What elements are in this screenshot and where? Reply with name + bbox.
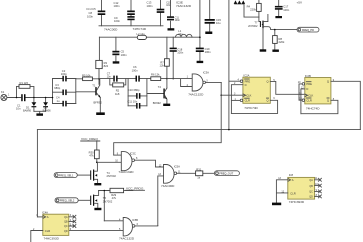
svg-text:CLR: CLR xyxy=(306,98,311,102)
svg-text:A: A xyxy=(292,178,294,182)
svg-text:10n: 10n xyxy=(107,75,112,78)
svg-text:100n: 100n xyxy=(132,68,138,72)
svg-text:T2: T2 xyxy=(158,85,162,89)
svg-text:IC3C: IC3C xyxy=(130,152,136,156)
svg-text:A: A xyxy=(47,215,49,219)
svg-text:CLR: CLR xyxy=(245,99,250,103)
svg-text:220k: 220k xyxy=(279,40,285,44)
svg-text:10n: 10n xyxy=(16,107,21,111)
svg-text:BF992: BF992 xyxy=(153,101,161,105)
svg-text:CLK: CLK xyxy=(246,93,251,97)
svg-text:IC1 IC5: IC1 IC5 xyxy=(87,7,97,11)
svg-text:BAW56: BAW56 xyxy=(43,109,52,112)
svg-text:IC2B: IC2B xyxy=(305,74,311,78)
svg-text:C11 10n: C11 10n xyxy=(127,99,137,103)
svg-text:QD: QD xyxy=(309,196,313,199)
svg-text:CLR: CLR xyxy=(45,229,50,233)
svg-text:680p: 680p xyxy=(54,86,60,90)
svg-text:74HC393D: 74HC393D xyxy=(44,237,60,241)
svg-text:100n: 100n xyxy=(121,53,127,57)
svg-text:IC5B: IC5B xyxy=(132,218,138,222)
svg-text:QC: QC xyxy=(309,191,313,194)
svg-text:CLR: CLR xyxy=(290,191,295,195)
svg-text:T5: T5 xyxy=(103,196,107,200)
svg-text:100n: 100n xyxy=(114,19,120,23)
svg-text:L2 12u: L2 12u xyxy=(137,32,146,36)
svg-text:1u: 1u xyxy=(57,99,60,103)
svg-text:QA: QA xyxy=(64,216,68,219)
svg-text:BFR92: BFR92 xyxy=(94,101,103,105)
svg-text:10u: 10u xyxy=(216,21,221,25)
svg-text:QB: QB xyxy=(64,221,68,224)
svg-text:FREQ_OUT: FREQ_OUT xyxy=(219,171,233,175)
svg-text:IC8: IC8 xyxy=(289,173,294,177)
svg-text:2N7002: 2N7002 xyxy=(248,24,258,28)
svg-text:+5V: +5V xyxy=(297,0,304,4)
svg-text:FREQ_SEL2: FREQ_SEL2 xyxy=(60,199,75,203)
svg-text:QB: QB xyxy=(309,185,313,188)
svg-text:822: 822 xyxy=(104,64,109,68)
svg-text:100n: 100n xyxy=(114,4,120,8)
svg-text:T1: T1 xyxy=(92,84,96,88)
svg-text:74HC393D: 74HC393D xyxy=(289,200,305,204)
svg-text:FREQ_SEL1: FREQ_SEL1 xyxy=(59,173,74,177)
svg-text:74AC00D: 74AC00D xyxy=(104,27,118,31)
svg-text:74AC132D: 74AC132D xyxy=(188,92,204,96)
svg-text:FREQ_PD: FREQ_PD xyxy=(302,28,314,32)
svg-text:74AC132D: 74AC132D xyxy=(118,170,134,174)
svg-text:Q: Q xyxy=(267,99,269,103)
svg-text:QC: QC xyxy=(64,225,68,228)
svg-text:D: D xyxy=(245,83,247,87)
svg-text:100n: 100n xyxy=(147,4,153,8)
svg-text:C10 680p: C10 680p xyxy=(128,88,140,92)
svg-text:IC3A: IC3A xyxy=(203,71,209,75)
svg-text:K1: K1 xyxy=(1,90,5,94)
svg-text:220k: 220k xyxy=(250,8,256,12)
svg-text:R5 10k: R5 10k xyxy=(82,73,91,77)
svg-text:Q: Q xyxy=(327,80,329,84)
svg-text:74HC74D: 74HC74D xyxy=(133,27,147,31)
svg-text:47k: 47k xyxy=(89,154,94,158)
svg-text:CLK: CLK xyxy=(308,94,313,98)
svg-text:2N7002: 2N7002 xyxy=(107,174,117,178)
svg-text:R6 12k: R6 12k xyxy=(151,72,160,76)
svg-text:PRE: PRE xyxy=(245,79,251,83)
svg-text:100n: 100n xyxy=(283,8,289,12)
svg-text:100n: 100n xyxy=(175,19,181,22)
svg-text:QD: QD xyxy=(64,230,68,233)
svg-text:100n: 100n xyxy=(87,15,93,19)
svg-text:D: D xyxy=(306,87,308,91)
svg-text:74HC74D: 74HC74D xyxy=(306,106,320,110)
svg-text:IC5A: IC5A xyxy=(174,164,180,168)
svg-text:100n: 100n xyxy=(205,50,211,54)
svg-text:Q: Q xyxy=(267,79,269,83)
svg-text:2N7002: 2N7002 xyxy=(103,200,113,204)
svg-text:BAW56: BAW56 xyxy=(23,109,32,112)
svg-text:QA: QA xyxy=(309,179,313,182)
svg-text:12k: 12k xyxy=(159,64,164,68)
svg-text:74AC132D: 74AC132D xyxy=(119,237,135,241)
svg-text:1k8: 1k8 xyxy=(115,92,120,96)
svg-text:IC2A: IC2A xyxy=(243,74,249,78)
svg-text:74AC00D: 74AC00D xyxy=(161,184,175,188)
svg-text:R31: R31 xyxy=(196,167,201,171)
svg-text:74AC132D: 74AC132D xyxy=(176,4,192,8)
svg-text:22u: 22u xyxy=(178,32,183,36)
svg-text:74HC74D: 74HC74D xyxy=(244,106,258,110)
svg-text:R1 1k5: R1 1k5 xyxy=(20,81,29,85)
svg-text:IC4A: IC4A xyxy=(42,210,48,214)
svg-text:100n: 100n xyxy=(177,51,183,55)
svg-text:PRE: PRE xyxy=(306,82,312,86)
svg-text:10n: 10n xyxy=(166,4,171,7)
svg-text:Q: Q xyxy=(327,98,329,102)
svg-text:C8: C8 xyxy=(89,11,93,15)
svg-text:100p: 100p xyxy=(61,72,67,76)
svg-text:47k: 47k xyxy=(112,196,117,200)
